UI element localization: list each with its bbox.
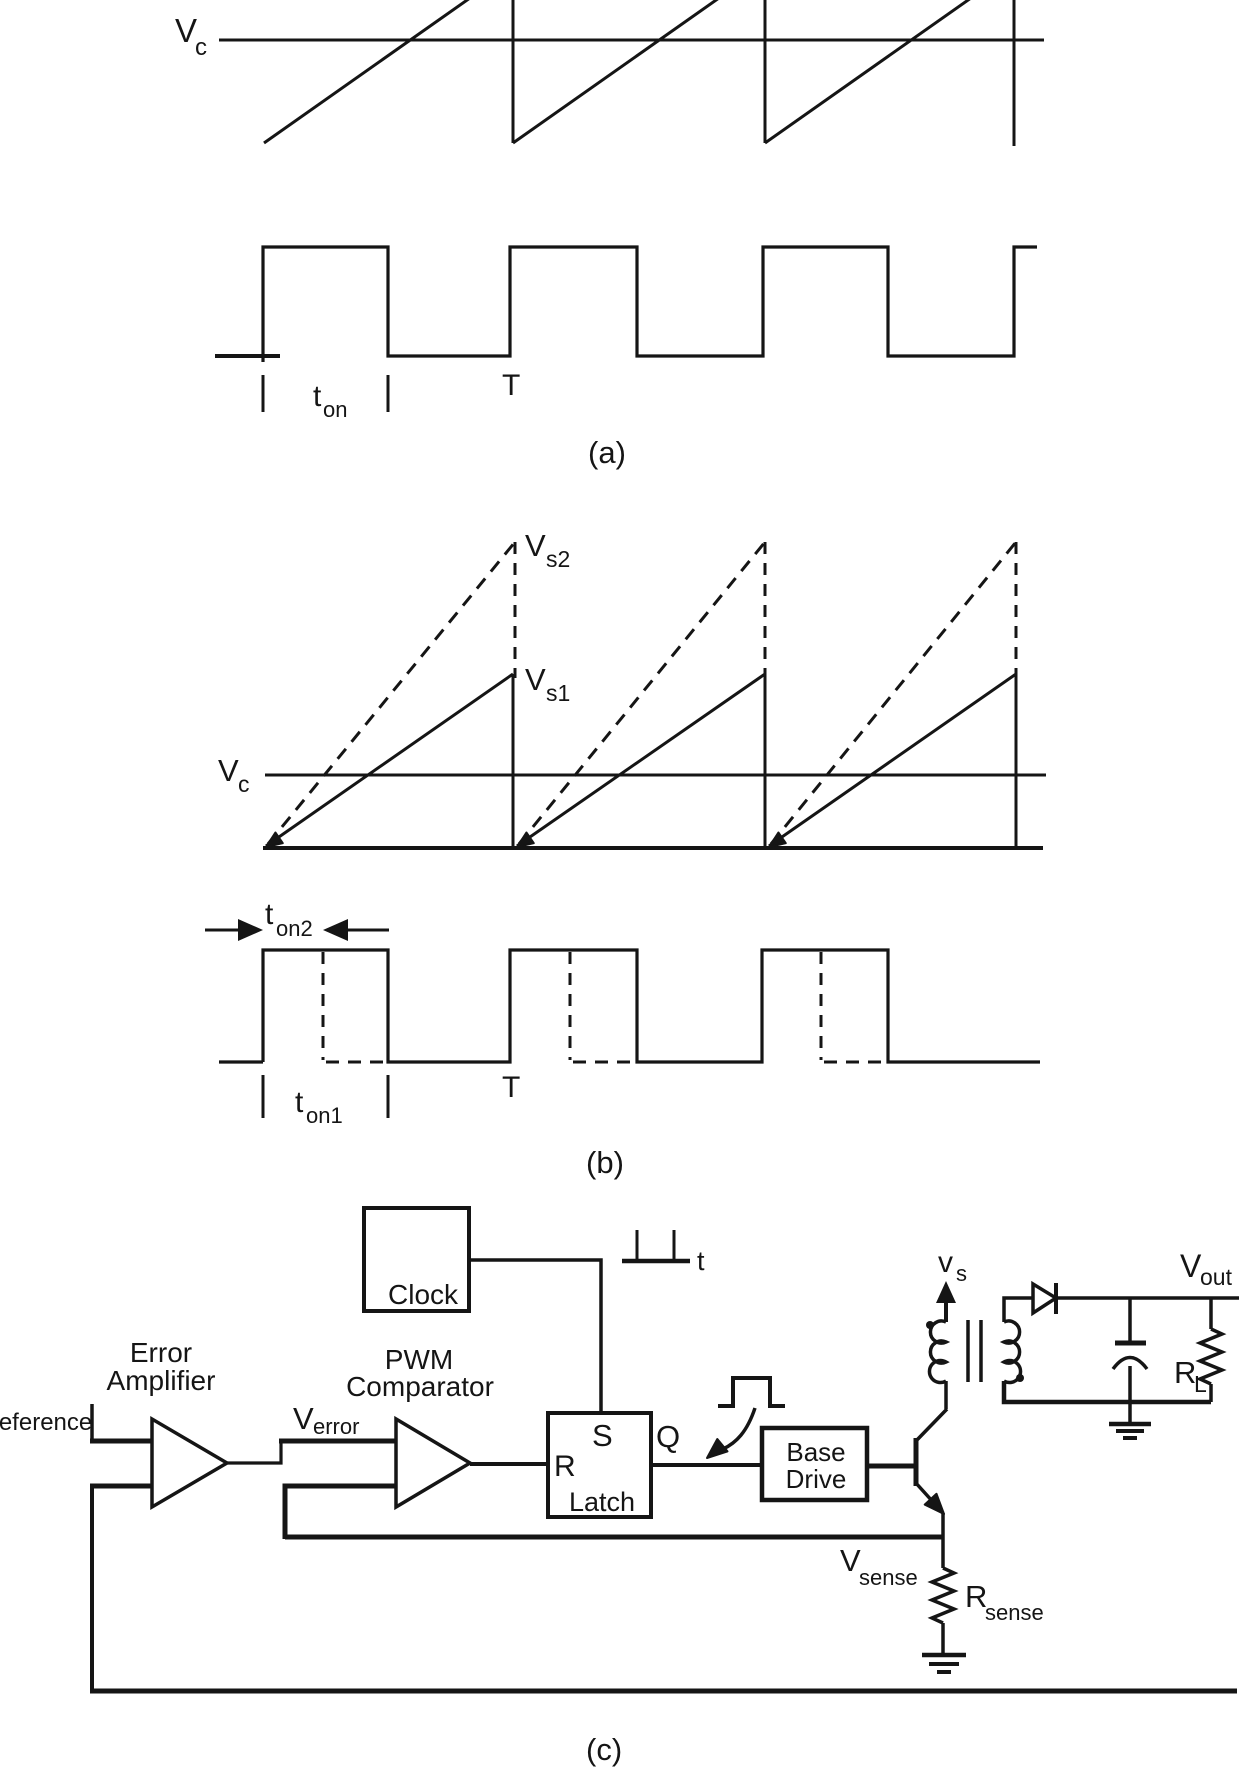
label Vs1 <box>525 662 570 706</box>
svg-text:V: V <box>525 662 546 697</box>
ground (Rsense) <box>922 1655 966 1672</box>
arrowhead ramp origin 2 <box>517 833 534 848</box>
wire clock to latch S <box>469 1260 601 1413</box>
svg-text:s1: s1 <box>546 680 570 706</box>
wire solid ramp Vs1 cycle 2 <box>517 674 765 846</box>
tick ton left (a) <box>262 375 265 412</box>
wire reference to error amp + input <box>90 1439 152 1444</box>
label ton2 <box>265 898 313 941</box>
curved arrow to Q wire <box>707 1408 755 1458</box>
node Vc label (a) <box>175 12 207 61</box>
wire Vsense rail <box>285 1535 943 1540</box>
label ton (a) <box>313 380 347 422</box>
arrow ton2 left shaft <box>205 929 243 932</box>
svg-text:on1: on1 <box>306 1103 343 1128</box>
svg-text:on2: on2 <box>276 916 313 941</box>
transistor Q1 base bar <box>914 1438 919 1486</box>
svg-text:c: c <box>195 34 207 61</box>
svg-text:Clock: Clock <box>388 1279 459 1310</box>
svg-text:V: V <box>1180 1248 1202 1284</box>
svg-text:on: on <box>323 397 347 422</box>
label PWM Comparator <box>346 1344 494 1402</box>
svg-text:Latch: Latch <box>569 1487 635 1517</box>
svg-text:Amplifier: Amplifier <box>107 1365 216 1396</box>
label RL <box>1174 1355 1207 1397</box>
wire square-wave lead-in (b) <box>219 1060 263 1063</box>
svg-text:(b): (b) <box>586 1145 624 1180</box>
wire secondary bottom rail <box>1004 1381 1211 1402</box>
tick ton1 left (b) <box>262 1075 265 1118</box>
wire Vc level line (a) <box>219 39 1044 42</box>
latch block <box>548 1413 651 1517</box>
svg-text:Reference: Reference <box>0 1409 92 1436</box>
diode D1 <box>1033 1283 1056 1314</box>
label ton1 <box>295 1086 343 1128</box>
svg-text:Q: Q <box>656 1419 680 1454</box>
svg-text:sense: sense <box>985 1600 1044 1625</box>
label Vout <box>1180 1248 1233 1290</box>
svg-text:Error: Error <box>130 1337 192 1368</box>
wire feedback left vertical <box>90 1484 94 1691</box>
svg-text:Comparator: Comparator <box>346 1371 494 1402</box>
wire solid drop Vs1 cycle 1 <box>512 674 515 848</box>
wire diode to Vout <box>1056 1296 1239 1300</box>
svg-text:V: V <box>293 1401 314 1436</box>
ground (output filter) <box>1109 1402 1151 1438</box>
wire dashed drop Vs2 cycle 3 <box>1015 542 1018 678</box>
svg-text:(c): (c) <box>586 1732 622 1767</box>
wire dashed drop Vs2 cycle 2 <box>764 542 767 678</box>
svg-text:T: T <box>502 1071 520 1104</box>
wire solid ramp Vs1 cycle 3 <box>769 674 1016 846</box>
polarity dot secondary <box>1016 1374 1024 1382</box>
svg-text:V: V <box>840 1543 861 1578</box>
wire sawtooth drop 1 (a) <box>512 0 515 143</box>
wire emitter to Rsense <box>941 1513 945 1568</box>
wire error amp output <box>227 1441 281 1463</box>
base drive block <box>762 1428 867 1500</box>
svg-text:s2: s2 <box>546 546 570 572</box>
svg-text:Base: Base <box>786 1437 845 1467</box>
SECTION-A <box>175 0 1044 470</box>
svg-text:t: t <box>265 898 274 931</box>
node Vc label (b) <box>218 753 250 797</box>
transistor Q1 collector lead <box>915 1409 947 1442</box>
wire solid drop Vs1 cycle 3 <box>1015 674 1018 846</box>
svg-text:v: v <box>938 1246 953 1279</box>
svg-text:t: t <box>313 380 322 413</box>
svg-text:t: t <box>295 1086 304 1119</box>
wire sawtooth ramp 1 (a) <box>264 0 470 143</box>
wire dashed fall 3 (b) <box>820 952 823 1060</box>
wire time axis baseline (b) <box>263 846 1043 850</box>
clock impulse waveform symbol <box>622 1230 690 1261</box>
svg-text:L: L <box>1194 1371 1207 1397</box>
tick ton right (a) <box>387 375 390 412</box>
wire comparator output to latch R <box>470 1462 548 1466</box>
arrow ton2 right shaft <box>346 929 389 932</box>
wire dashed low segment 2 (b) <box>573 1061 637 1064</box>
tick ton1 right (b) <box>387 1075 390 1118</box>
inductor secondary winding <box>1004 1321 1021 1383</box>
svg-text:t: t <box>697 1246 705 1276</box>
svg-text:V: V <box>175 12 197 49</box>
wire dashed drop Vs2 cycle 1 <box>514 542 517 678</box>
wire solid drop Vs1 cycle 2 <box>764 674 767 848</box>
wire dashed ramp Vs2 cycle 3 <box>771 542 1016 844</box>
clock block <box>364 1208 469 1311</box>
op-amp error amplifier <box>152 1419 227 1507</box>
wire error amp - input <box>90 1484 152 1489</box>
SECTION-B <box>205 528 1046 1180</box>
label vs <box>938 1246 967 1286</box>
arrowhead ton2 right <box>323 919 348 941</box>
wire reference input <box>90 1404 94 1441</box>
svg-text:out: out <box>1200 1264 1233 1290</box>
wire sawtooth ramp 3 (a) <box>765 0 971 143</box>
arrowhead ton2 left <box>238 919 263 941</box>
label Rsense <box>965 1579 1044 1625</box>
wire Vsense to comparator - input <box>285 1486 396 1539</box>
wire solid ramp Vs1 cycle 1 <box>266 674 513 846</box>
wire sawtooth drop 3 (a) <box>1013 0 1016 146</box>
wire sawtooth drop 2 (a) <box>764 0 767 143</box>
svg-text:S: S <box>592 1418 613 1453</box>
op-amp PWM comparator <box>396 1419 470 1507</box>
wire dashed fall 2 (b) <box>569 952 572 1060</box>
pulse waveform symbol above Q wire <box>718 1378 785 1406</box>
arrowhead ramp origin 3 <box>769 833 786 848</box>
svg-text:s: s <box>956 1261 967 1286</box>
wire dashed ramp Vs2 cycle 2 <box>519 542 765 844</box>
wire dashed fall 1 (b) <box>322 952 325 1060</box>
svg-text:V: V <box>218 753 239 788</box>
transformer core <box>968 1320 981 1382</box>
label Vsense <box>840 1543 918 1590</box>
wire dashed low segment 1 (b) <box>326 1061 388 1064</box>
svg-text:sense: sense <box>859 1565 918 1590</box>
transistor Q1 emitter lead with arrow <box>915 1482 944 1514</box>
label Vs2 <box>525 528 570 572</box>
svg-text:V: V <box>525 528 546 563</box>
wire dashed low segment 3 (b) <box>824 1061 888 1064</box>
SECTION-C <box>0 1208 1239 1767</box>
wire PWM square wave (a) <box>263 247 1037 362</box>
polarity dot primary <box>926 1321 934 1329</box>
svg-text:error: error <box>313 1414 359 1439</box>
svg-text:c: c <box>238 771 250 797</box>
arrowhead ramp origin 1 <box>266 833 283 848</box>
resistor RL <box>1200 1298 1222 1402</box>
wire feedback bottom rail <box>90 1689 1237 1694</box>
wire dashed ramp Vs2 cycle 1 <box>268 542 515 844</box>
wire latch Q output to base drive <box>651 1463 762 1467</box>
resistor Rsense <box>932 1568 954 1654</box>
svg-text:(a): (a) <box>588 435 626 470</box>
inductor primary winding <box>929 1321 946 1383</box>
wire base drive to transistor base <box>867 1464 916 1469</box>
label Verror <box>293 1401 359 1439</box>
label Error Amplifier <box>107 1337 216 1396</box>
wire PWM square wave solid (b) <box>263 950 1040 1062</box>
wire Vc level line (b) <box>265 774 1046 777</box>
svg-text:R: R <box>554 1450 576 1483</box>
wire Verror to comparator + input <box>279 1439 396 1444</box>
svg-text:Drive: Drive <box>786 1464 847 1494</box>
wire primary bottom to collector <box>944 1381 948 1409</box>
wire sawtooth ramp 2 (a) <box>513 0 719 143</box>
arrow vs (current direction) <box>936 1281 956 1322</box>
wire square-wave lead-in (a) <box>215 354 280 358</box>
capacitor C1 <box>1113 1298 1147 1402</box>
wire secondary top to diode <box>1004 1298 1033 1322</box>
svg-text:T: T <box>502 369 520 402</box>
